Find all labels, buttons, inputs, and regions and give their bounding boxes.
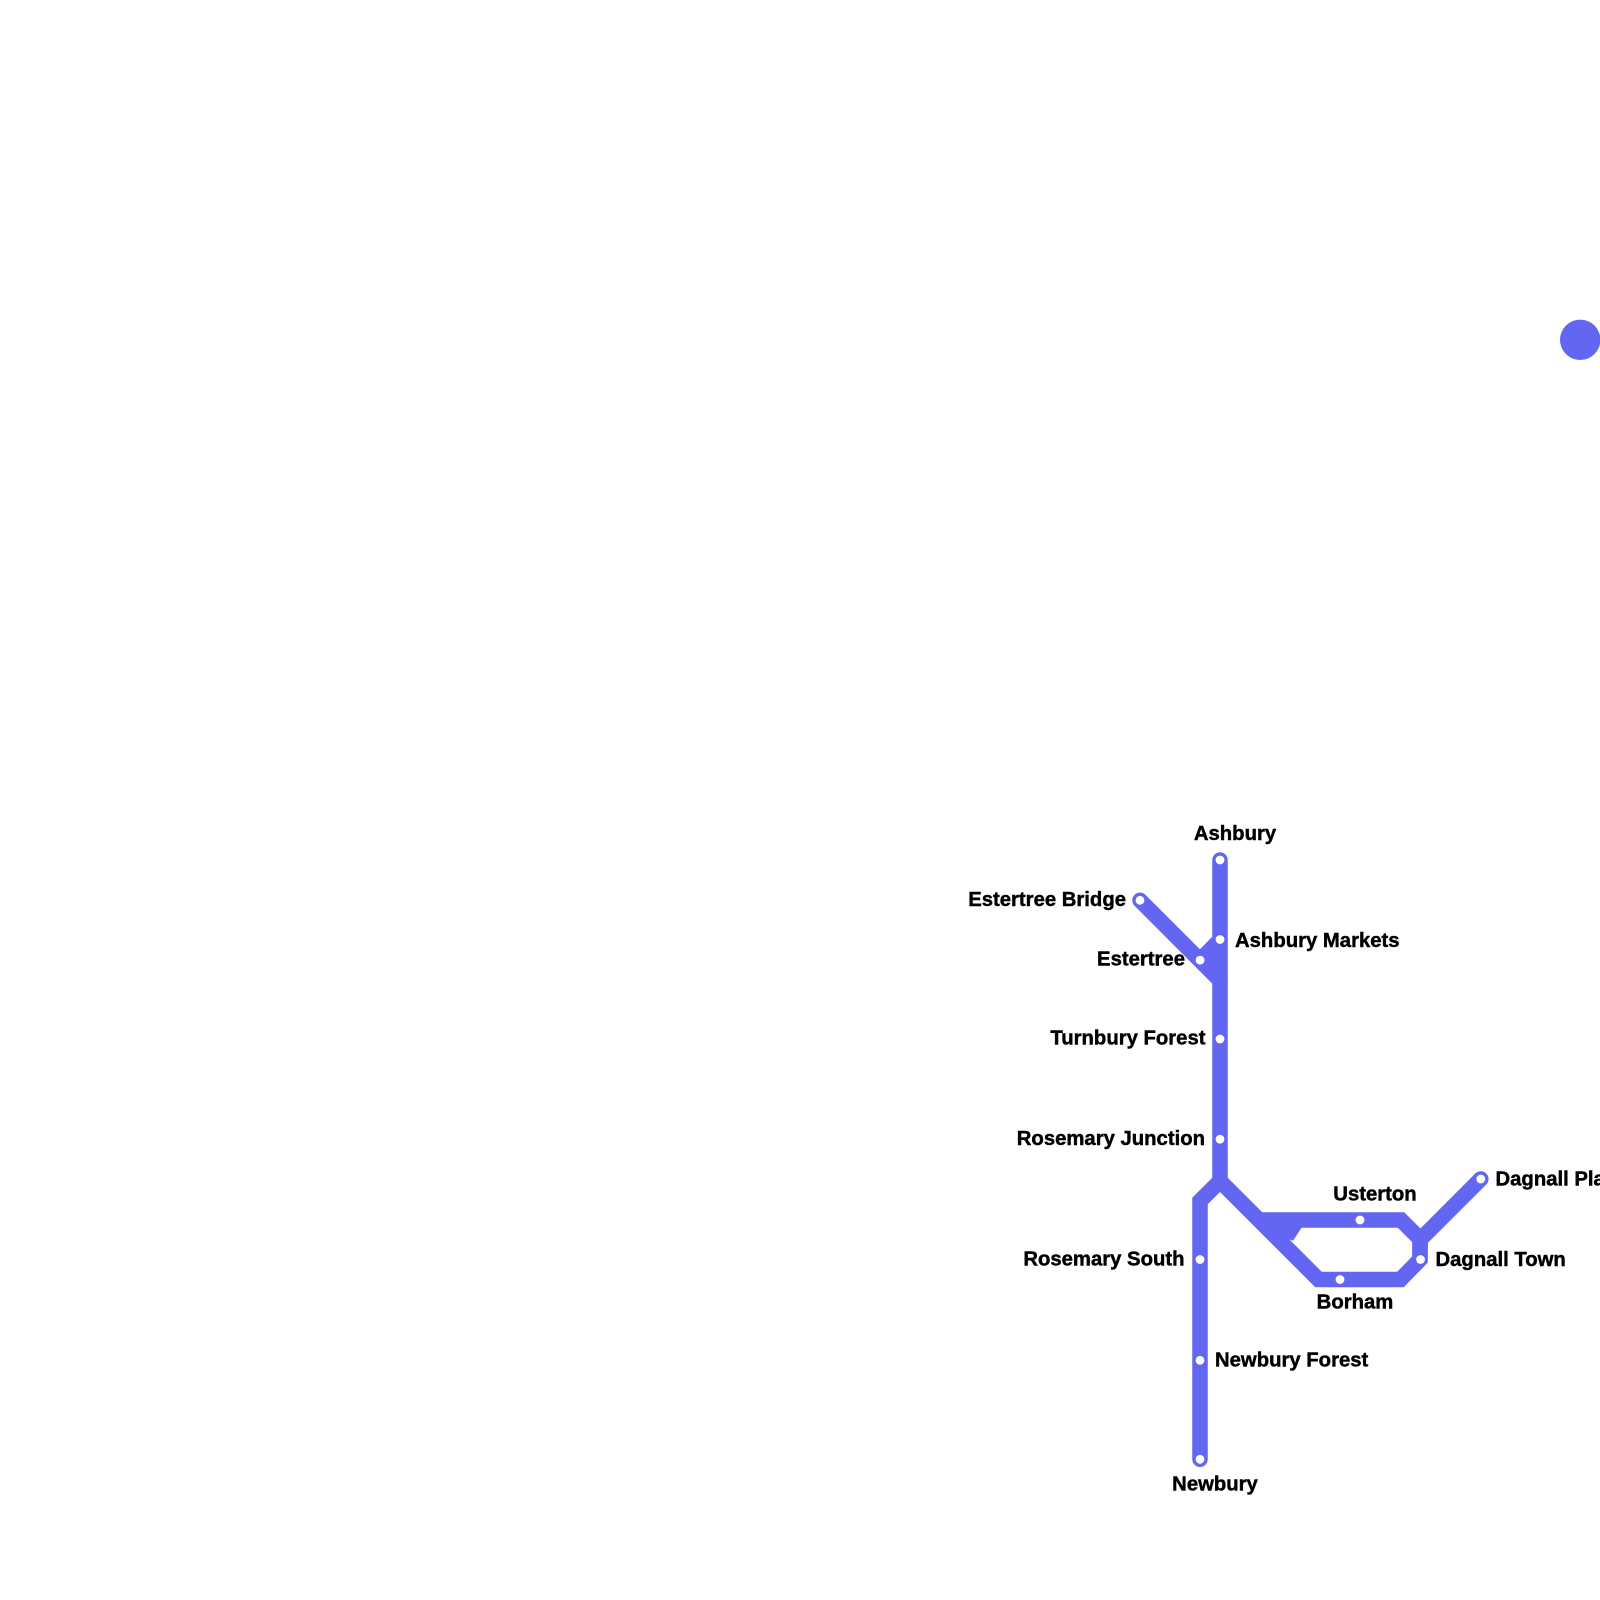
- node Rosemary Junction: [1216, 1135, 1225, 1144]
- svg-text:Newbury: Newbury: [1172, 1474, 1258, 1496]
- junction filler between Usterton horizontal and Borham diagonal: [1270, 1221, 1306, 1241]
- svg-text:Dagnall Place: Dagnall Place: [1496, 1169, 1600, 1191]
- svg-text:Rosemary South: Rosemary South: [1023, 1249, 1184, 1271]
- svg-text:Turnbury Forest: Turnbury Forest: [1050, 1028, 1205, 1050]
- node Rosemary South: [1196, 1255, 1205, 1264]
- svg-text:Ashbury Markets: Ashbury Markets: [1235, 930, 1400, 952]
- svg-text:Estertree Bridge: Estertree Bridge: [968, 889, 1126, 911]
- wire: Borham branch, fork diagonal to lower horizontal and right side up: [1220, 1181, 1420, 1280]
- node Dagnall Place: [1476, 1175, 1485, 1184]
- node Ashbury Markets: [1216, 935, 1225, 944]
- node Borham: [1336, 1275, 1345, 1284]
- svg-text:Dagnall Town: Dagnall Town: [1436, 1249, 1566, 1271]
- svg-text:Estertree: Estertree: [1097, 949, 1185, 971]
- wire: Usterton branch, fork to upper horizontal and down right side: [1259, 1220, 1420, 1260]
- node Newbury Forest: [1196, 1356, 1205, 1365]
- wire: Dagnall Place spur: [1420, 1179, 1481, 1240]
- wire: fork to Newbury branch: [1200, 1181, 1220, 1459]
- node Dagnall Town: [1416, 1255, 1425, 1264]
- node Newbury: [1196, 1455, 1205, 1464]
- wire: Estertree to Ashbury Markets link: [1200, 940, 1220, 960]
- node Usterton: [1356, 1216, 1365, 1225]
- svg-text:Borham: Borham: [1317, 1292, 1394, 1314]
- svg-text:Newbury Forest: Newbury Forest: [1215, 1350, 1369, 1372]
- node Turnbury Forest: [1216, 1035, 1225, 1044]
- node: standalone blue dot top right: [1560, 320, 1600, 360]
- junction filler at Estertree wye: [1208, 956, 1215, 963]
- wire: main vertical line Ashbury to fork: [1212, 860, 1228, 1181]
- node Estertree: [1196, 956, 1205, 965]
- node Estertree Bridge: [1136, 896, 1145, 905]
- wire: Estertree Bridge diagonal: [1140, 900, 1220, 980]
- svg-text:Usterton: Usterton: [1333, 1184, 1416, 1206]
- node Ashbury: [1216, 856, 1225, 865]
- svg-text:Rosemary Junction: Rosemary Junction: [1017, 1128, 1205, 1150]
- svg-text:Ashbury: Ashbury: [1194, 823, 1277, 845]
